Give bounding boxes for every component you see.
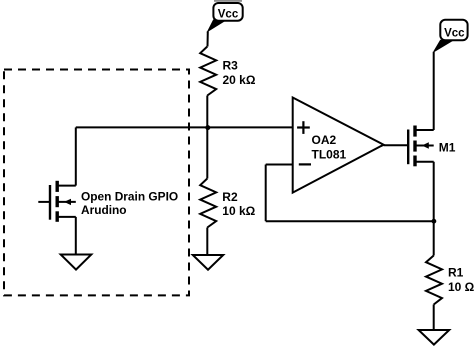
power flag Vcc (left, net Vcc)	[208, 3, 243, 31]
wire R2 to ground	[206, 228, 208, 256]
wire main node to op-amp + input	[76, 126, 293, 128]
value 10 Ohm	[448, 280, 474, 294]
svg-text:Arudino: Arudino	[81, 203, 127, 217]
resistor R3	[200, 47, 216, 96]
dashed enclosure box (Arduino GPIO block)	[4, 70, 189, 296]
svg-text:OA2: OA2	[312, 133, 337, 147]
svg-text:10 Ω: 10 Ω	[448, 280, 474, 294]
wire R3 to R2 through node	[206, 96, 208, 179]
transistor M1 NMOS	[408, 126, 434, 167]
ground under R1	[419, 330, 450, 345]
svg-text:R3: R3	[223, 58, 239, 72]
wire R1 to ground	[433, 305, 435, 331]
wire GPIO source to ground	[75, 217, 77, 255]
wire op-amp output to M1 gate	[384, 144, 408, 146]
wire GPIO drain up to node wire	[75, 127, 77, 185]
label Open Drain GPIO / Arudino	[81, 190, 178, 218]
value 20 kOhm	[223, 73, 256, 87]
transistor Q1 open-drain GPIO NMOS	[38, 181, 76, 222]
value 10 kOhm	[222, 204, 255, 218]
svg-text:10 kΩ: 10 kΩ	[222, 204, 255, 218]
grey clipped edge above Vcc flag	[214, 0, 242, 2]
svg-text:R2: R2	[222, 190, 238, 204]
ground under GPIO	[61, 255, 92, 270]
node junction at R3/R2 divider	[205, 125, 210, 130]
wire Vcc to M1 drain	[433, 52, 435, 130]
power flag Vcc (right, net Vcc)	[434, 20, 468, 52]
ground under R2	[193, 255, 223, 270]
wire feedback vertical	[265, 165, 267, 222]
label TL081	[312, 147, 347, 161]
svg-text:Vcc: Vcc	[218, 8, 239, 20]
wire M1 source down through node to R1	[433, 162, 435, 256]
svg-text:Open Drain GPIO: Open Drain GPIO	[81, 190, 178, 204]
svg-text:M1: M1	[439, 141, 456, 155]
svg-text:R1: R1	[448, 266, 464, 280]
svg-text:Vcc: Vcc	[444, 27, 465, 39]
svg-text:TL081: TL081	[312, 147, 347, 161]
wire op-amp inverting input	[266, 164, 293, 166]
label R1	[448, 266, 464, 280]
svg-text:20 kΩ: 20 kΩ	[223, 73, 256, 87]
op-amp OA2	[293, 98, 384, 193]
resistor R1	[426, 256, 442, 305]
label R2	[222, 190, 238, 204]
resistor R2	[200, 179, 216, 228]
wire feedback horizontal to source node	[266, 220, 434, 222]
label M1	[439, 141, 456, 155]
wire Vcc flag to R3	[207, 31, 209, 46]
node junction source/feedback/R1	[432, 219, 437, 224]
label R3	[223, 58, 239, 72]
label OA2	[312, 133, 337, 147]
